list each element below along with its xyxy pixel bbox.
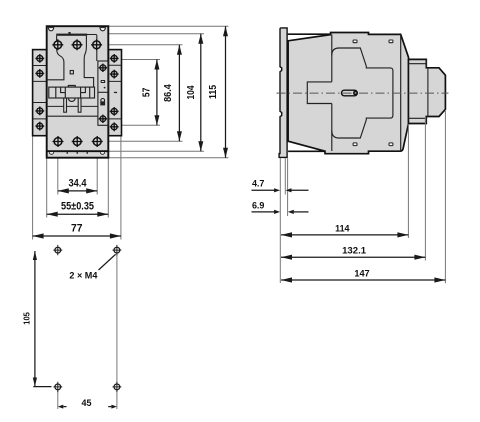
vent hole bottom 2 bbox=[389, 143, 393, 146]
svg-text:114: 114 bbox=[335, 223, 350, 234]
contactor main body front view bbox=[47, 26, 109, 158]
extension lines right of front view bbox=[101, 26, 229, 158]
coil base edge bbox=[407, 59, 409, 123]
top mounting notch arcs bbox=[48, 28, 105, 31]
svg-text:4.7: 4.7 bbox=[252, 179, 265, 190]
svg-text:57: 57 bbox=[140, 87, 152, 97]
bar extension and panel top rib bbox=[87, 35, 97, 62]
dimension 147 bbox=[281, 268, 445, 282]
vent hole bottom 1 bbox=[353, 143, 357, 146]
coil housing step bands bbox=[409, 59, 428, 123]
dimension 55±0.35 bbox=[47, 201, 109, 217]
top terminal screw 1 bbox=[52, 39, 63, 50]
body top edge line bbox=[288, 33, 331, 35]
dimension 114 bbox=[281, 223, 408, 237]
bottom terminal screw 2 bbox=[72, 136, 83, 147]
dimension 115 bbox=[207, 26, 228, 158]
mounting hole bottom-right bbox=[113, 382, 122, 392]
dimension 132.1 bbox=[281, 246, 425, 260]
top cover bar bbox=[56, 32, 87, 36]
panel screws bbox=[99, 64, 107, 123]
dimension 34.4 bbox=[58, 177, 97, 193]
svg-text:132.1: 132.1 bbox=[342, 246, 367, 257]
dimension 57 bbox=[140, 60, 159, 126]
bottom terminal screw 1 bbox=[53, 136, 64, 147]
right terminal flange bbox=[108, 50, 121, 136]
panel dot bbox=[104, 87, 106, 89]
moving contact crossbar bbox=[49, 86, 95, 102]
armature stem bbox=[307, 82, 332, 104]
extension lines below front view bbox=[33, 136, 121, 240]
top terminal screw 3 bbox=[91, 39, 102, 50]
front cover profile outline bbox=[332, 48, 393, 138]
padlock icon bbox=[100, 99, 105, 106]
dimension 86.4 bbox=[162, 45, 182, 142]
left terminal flange bbox=[33, 50, 47, 136]
right flange screws bbox=[110, 54, 119, 131]
vent hole top 2 bbox=[389, 40, 393, 43]
svg-text:6.9: 6.9 bbox=[252, 200, 265, 211]
mounting hole bottom-left bbox=[53, 382, 62, 392]
svg-text:77: 77 bbox=[71, 222, 83, 234]
crossbar prongs bbox=[64, 98, 81, 112]
body molding lines bbox=[48, 106, 98, 116]
inner cover funnel outline bbox=[48, 36, 94, 87]
side view body outline bbox=[288, 33, 445, 154]
dimension 45 bbox=[58, 398, 117, 409]
DIN rail bracket bbox=[279, 28, 287, 158]
vent hole top 1 bbox=[353, 40, 357, 43]
top terminal screw 2 bbox=[72, 39, 83, 50]
bottom base strip bbox=[47, 151, 109, 154]
left flange screws bbox=[35, 54, 44, 131]
mounting hole pattern centerline bbox=[116, 253, 118, 409]
dimension 6.9 bbox=[252, 200, 309, 214]
svg-text:34.4: 34.4 bbox=[69, 177, 88, 189]
svg-text:86.4: 86.4 bbox=[162, 84, 174, 102]
svg-text:55±0.35: 55±0.35 bbox=[61, 201, 94, 213]
svg-text:104: 104 bbox=[185, 85, 197, 99]
svg-text:147: 147 bbox=[354, 268, 369, 279]
auxiliary panel bbox=[98, 61, 108, 125]
bottom terminal screw 3 bbox=[92, 136, 103, 147]
front/back section step line bbox=[331, 35, 333, 152]
dimension 104 bbox=[185, 34, 203, 152]
body bottom edge line bbox=[288, 150, 325, 152]
small indicator square bbox=[70, 71, 73, 74]
dimension 105 bbox=[22, 251, 52, 387]
svg-text:2 × M4: 2 × M4 bbox=[69, 271, 97, 281]
dimension 4.7 bbox=[252, 179, 309, 193]
label 2xM4 with leader bbox=[69, 254, 115, 280]
center pin pill bbox=[342, 90, 358, 96]
side view extension lines bbox=[280, 111, 445, 283]
panel label chip bbox=[101, 80, 106, 83]
mounting hole top-left bbox=[53, 245, 62, 255]
svg-text:105: 105 bbox=[22, 312, 32, 325]
svg-text:115: 115 bbox=[207, 85, 219, 99]
front cover right edge line bbox=[400, 35, 402, 151]
svg-text:45: 45 bbox=[82, 398, 92, 408]
dimension 77 bbox=[33, 222, 121, 238]
mounting hole top-right bbox=[113, 245, 122, 255]
centerline bbox=[277, 92, 449, 94]
